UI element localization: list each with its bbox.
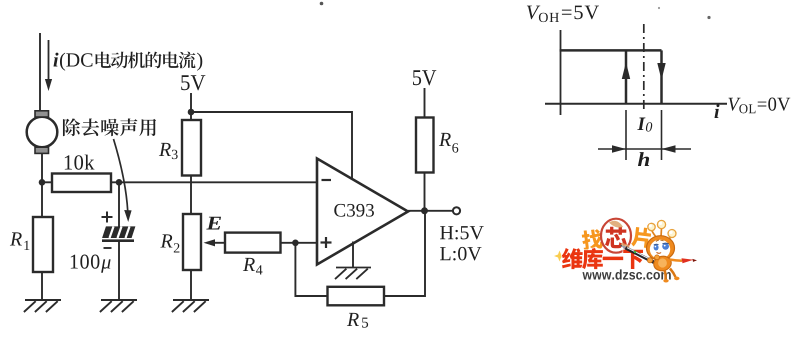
watermark www.dzsc.com bbox=[582, 272, 592, 279]
wire 5V to node C bbox=[190, 93, 192, 120]
resistor R2 (pot) bbox=[183, 214, 201, 270]
speck bbox=[658, 7, 660, 9]
label R2 bbox=[160, 234, 172, 247]
ground under R2 bbox=[172, 300, 209, 312]
label 5V (left supply) bbox=[181, 75, 189, 90]
label E (wiper voltage) bbox=[206, 217, 221, 230]
label R5 bbox=[347, 313, 359, 326]
graph: h dimension line with arrows bbox=[598, 148, 691, 150]
node B junction dot bbox=[116, 179, 123, 186]
label R6 bbox=[439, 133, 451, 146]
capacitor C1 100u top plate (hatched) bbox=[103, 227, 134, 237]
wiper arrow from R4 into R2 bbox=[210, 242, 225, 244]
op-amp U1 C393 triangle bbox=[317, 159, 408, 265]
wire node C to comparator V+ pin bbox=[191, 112, 352, 180]
label R4 bbox=[243, 258, 255, 271]
label: noise-removal text bbox=[63, 118, 80, 136]
wire R6 to output node bbox=[424, 173, 426, 212]
wire 10k to node B and on to op-amp minus input bbox=[111, 181, 317, 183]
graph: high-level line bbox=[560, 49, 662, 52]
watermark mascot bbox=[620, 220, 697, 282]
graph: label i (axis) bbox=[715, 104, 720, 118]
motor M bbox=[27, 117, 58, 148]
graph: horizontal axis bbox=[545, 103, 727, 105]
label C393 bbox=[334, 204, 345, 217]
graph: right transition with down arrow bbox=[660, 50, 663, 103]
wire R4 to plus input bbox=[281, 242, 318, 244]
label i(DC motor current) bbox=[54, 53, 59, 67]
wire node D down and to R5 bbox=[295, 243, 327, 296]
wire cap to ground bbox=[118, 241, 120, 300]
node D junction dot bbox=[292, 240, 299, 247]
wire 5V to R6 bbox=[424, 88, 426, 118]
wire R5 to output node bbox=[384, 211, 425, 296]
resistor R5 bbox=[328, 287, 385, 306]
leader curve with arrowhead to capacitor bbox=[114, 139, 128, 212]
node A junction dot bbox=[39, 179, 46, 186]
plus input symbol bbox=[321, 241, 332, 243]
ground stem from op-amp bbox=[352, 242, 354, 268]
wire R3 to R2 crossing input wire bbox=[190, 176, 192, 215]
graph: label I0 bbox=[637, 118, 645, 130]
graph: left transition with up arrow bbox=[625, 50, 628, 103]
capacitor minus mark bbox=[104, 247, 112, 249]
resistor R6 bbox=[416, 118, 434, 173]
watermark magnifier circle with xin bbox=[601, 219, 631, 253]
watermark sparkle bbox=[554, 251, 565, 262]
watermark dzsc.com logo bbox=[554, 219, 697, 283]
wire: top vertical into motor bbox=[39, 33, 41, 113]
wire R2 to ground bbox=[190, 270, 192, 300]
graph: label VOH=5V bbox=[527, 6, 540, 20]
ground under R1 bbox=[24, 300, 61, 312]
speck bbox=[320, 2, 324, 6]
label 10k bbox=[65, 155, 72, 169]
current direction arrow i bbox=[48, 40, 50, 82]
graph: dash-dot centre line I0 bbox=[643, 24, 645, 112]
wire node B down to capacitor bbox=[118, 182, 120, 227]
graph: vertical axis bbox=[560, 30, 562, 115]
label 5V (right supply) bbox=[413, 70, 421, 85]
label H:5V bbox=[440, 226, 453, 239]
resistor R3 bbox=[182, 120, 201, 176]
speck bbox=[707, 16, 710, 19]
watermark weiku yixia red text bbox=[562, 248, 583, 269]
label L:0V bbox=[440, 247, 450, 260]
label R1 bbox=[10, 232, 22, 245]
ground under capacitor bbox=[100, 300, 137, 312]
graph: label h bbox=[638, 152, 649, 166]
wire op-amp output to terminal bbox=[408, 210, 453, 212]
capacitor C1 bottom plate bbox=[102, 239, 134, 242]
minus input symbol bbox=[322, 179, 332, 181]
ground under op-amp bbox=[335, 268, 371, 280]
output node junction dot bbox=[421, 207, 428, 214]
label R3 bbox=[159, 143, 171, 156]
wire motor to node A bbox=[41, 154, 43, 218]
label 100u bbox=[71, 255, 78, 269]
resistor 10k bbox=[52, 174, 111, 193]
wire node A to 10k bbox=[42, 181, 52, 183]
resistor R1 bbox=[33, 217, 53, 272]
capacitor C1 polarity plus bbox=[102, 216, 113, 218]
wire R1 to ground bbox=[41, 272, 43, 300]
node C junction dot bbox=[188, 109, 195, 116]
output terminal open circle bbox=[453, 207, 460, 214]
graph: h extension lines bbox=[625, 110, 627, 160]
resistor R4 bbox=[225, 233, 281, 253]
graph: label VOL=0V bbox=[728, 98, 740, 111]
